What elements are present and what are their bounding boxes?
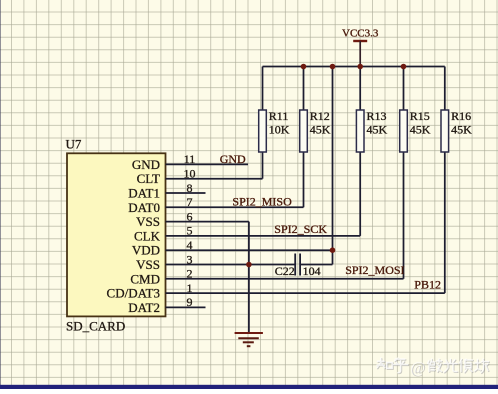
svg-text:SPI2_MOSI: SPI2_MOSI — [345, 263, 404, 277]
svg-text:VDD: VDD — [132, 243, 160, 258]
resistor R13 45K — [356, 67, 387, 236]
svg-text:DAT1: DAT1 — [128, 186, 160, 201]
pin 5 (CLK) of U7 — [134, 224, 206, 244]
pin 6 (VSS) of U7 — [136, 209, 205, 229]
wire VCC bus horizontal — [263, 66, 445, 68]
wire VCC column from bus down to capacitor right lead — [300, 67, 332, 265]
wire pin10 to R11 bottom — [206, 178, 263, 180]
resistor R15 45K — [400, 67, 431, 279]
svg-text:2: 2 — [187, 267, 193, 281]
svg-text:GND: GND — [220, 152, 246, 166]
svg-text:7: 7 — [187, 195, 193, 209]
wire ground column — [248, 265, 250, 334]
designator C22 — [275, 264, 295, 278]
svg-text:VSS: VSS — [136, 214, 160, 229]
svg-text:104: 104 — [303, 264, 321, 278]
svg-text:C22: C22 — [275, 264, 295, 278]
junction dot 4 — [401, 64, 407, 70]
resistor R12 45K — [300, 67, 331, 208]
svg-text:45K: 45K — [451, 123, 472, 137]
svg-text:CLK: CLK — [134, 228, 161, 243]
wire pin5 SPI2_SCK to R13 bottom — [206, 235, 361, 237]
junction dot 5 — [330, 247, 336, 253]
pin 10 (CLT) of U7 — [137, 167, 206, 187]
svg-text:SPI2_SCK: SPI2_SCK — [274, 222, 327, 236]
wire pin2 SPI2_MOSI to R15 bottom — [206, 278, 404, 280]
svg-text:45K: 45K — [367, 123, 388, 137]
svg-text:1: 1 — [187, 281, 193, 295]
wire pin4 VDD to VCC column — [206, 249, 333, 251]
designator U7 — [66, 137, 82, 152]
svg-text:R16: R16 — [451, 109, 471, 123]
svg-text:45K: 45K — [410, 123, 431, 137]
svg-text:45K: 45K — [310, 123, 331, 137]
label VCC3.3 — [342, 27, 379, 39]
svg-text:@: @ — [411, 360, 426, 377]
net label GND — [220, 152, 246, 166]
svg-text:SD_CARD: SD_CARD — [66, 318, 125, 333]
svg-text:4: 4 — [187, 238, 193, 252]
wire pin3 VSS to capacitor left plate — [206, 264, 296, 266]
pin 7 (DAT0) of U7 — [128, 195, 205, 215]
svg-text:10: 10 — [184, 167, 196, 181]
wire pin11 GND stub — [206, 163, 249, 165]
svg-text:CD/DAT3: CD/DAT3 — [107, 286, 160, 301]
svg-text:R11: R11 — [269, 109, 289, 123]
pin 11 (GND) of U7 — [132, 152, 206, 172]
power symbol VCC3.3 — [353, 41, 367, 67]
svg-text:11: 11 — [184, 152, 196, 166]
bottom blue bar — [0, 385, 498, 389]
junction dot 1 — [301, 64, 307, 70]
svg-text:SPI2_MISO: SPI2_MISO — [232, 195, 292, 209]
svg-text:10K: 10K — [269, 123, 290, 137]
wire pin7 SPI2_MISO to R12 bottom — [206, 206, 304, 208]
pin 9 (DAT2) of U7 — [128, 295, 205, 315]
svg-text:5: 5 — [187, 224, 193, 238]
svg-text:CLT: CLT — [137, 171, 160, 186]
pin 3 (VSS) of U7 — [136, 252, 205, 272]
wire pin6 VSS right then down to pin3 wire — [206, 222, 249, 265]
svg-text:DAT2: DAT2 — [128, 300, 160, 315]
wire pin1 PB12 to R16 bottom — [206, 292, 445, 294]
capacitor C22 plates — [295, 254, 300, 276]
value 104 — [303, 264, 321, 278]
svg-text:DAT0: DAT0 — [128, 200, 160, 215]
junction dot 6 — [246, 262, 252, 268]
svg-text:VSS: VSS — [136, 257, 160, 272]
pin 2 (CMD) of U7 — [130, 267, 205, 287]
svg-text:8: 8 — [187, 181, 193, 195]
svg-text:GND: GND — [132, 157, 160, 172]
svg-text:CMD: CMD — [130, 271, 160, 286]
junction dot 2 — [330, 64, 336, 70]
resistor R11 10K — [259, 67, 290, 179]
watermark 知乎 @微光倾城 — [377, 358, 489, 377]
net label SPI2_MISO — [232, 195, 292, 209]
pin 4 (VDD) of U7 — [132, 238, 206, 258]
net label SPI2_SCK — [274, 222, 327, 236]
svg-text:R12: R12 — [310, 109, 330, 123]
svg-text:R15: R15 — [410, 109, 430, 123]
label SD_CARD — [66, 318, 125, 333]
svg-text:3: 3 — [187, 252, 193, 266]
resistor R16 45K — [441, 67, 472, 294]
svg-text:9: 9 — [187, 295, 193, 309]
ground symbol — [235, 333, 263, 346]
net label SPI2_MOSI — [345, 263, 404, 277]
svg-text:R13: R13 — [367, 109, 387, 123]
pin 1 (CD/DAT3) of U7 — [107, 281, 206, 301]
junction dot 3 — [357, 64, 363, 70]
svg-text:PB12: PB12 — [414, 277, 441, 291]
pin 8 (DAT1) of U7 — [128, 181, 205, 201]
svg-text:VCC3.3: VCC3.3 — [342, 27, 379, 39]
net label PB12 — [414, 277, 441, 291]
svg-text:U7: U7 — [66, 137, 82, 152]
IC U7 SD_CARD body — [67, 153, 166, 316]
svg-text:6: 6 — [187, 209, 193, 223]
